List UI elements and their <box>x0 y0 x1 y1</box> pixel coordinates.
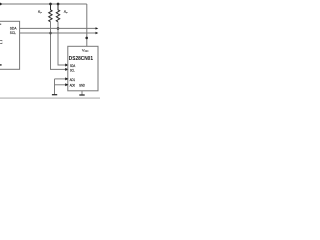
svg-text:AD1: AD1 <box>70 77 76 82</box>
chip U2 DS28CN01 box <box>68 46 98 91</box>
label fragment top-left <box>0 24 1 25</box>
wire AD0 pin <box>55 84 66 86</box>
label fragment bottom-left <box>0 64 2 66</box>
node R1-SCL bus junction <box>49 32 52 35</box>
svg-text:DS28CN01: DS28CN01 <box>69 56 93 62</box>
wire VCC top rail <box>0 3 87 5</box>
wire R2 vertical down to SDA pin bend <box>58 22 66 65</box>
wire SCL bus <box>20 32 96 34</box>
svg-text:C: C <box>0 40 3 46</box>
svg-text:RP: RP <box>38 10 42 15</box>
microcontroller U1 box <box>0 21 20 69</box>
wire VCC drop to U2 <box>86 4 88 46</box>
arrow into U2 AD0 pin <box>65 83 68 86</box>
wire R1 vertical down to SCL pin bend <box>51 22 66 70</box>
svg-text:RP: RP <box>64 10 68 15</box>
wire GND pin vertical <box>81 91 83 95</box>
ground bar AD tie <box>52 94 57 96</box>
svg-text:SCL: SCL <box>70 68 75 73</box>
arrow SCL bus right end <box>96 32 99 34</box>
svg-text:AD0: AD0 <box>70 83 76 88</box>
arrow into U2 SDA pin <box>65 64 68 67</box>
arrow into U2 AD1 pin <box>65 77 68 80</box>
node R2-SDA bus junction <box>57 27 60 30</box>
node on VCC drop <box>85 37 88 40</box>
node rail left end <box>0 3 2 6</box>
wire AD1 pin <box>55 78 66 80</box>
ground bar GND pin <box>79 94 84 96</box>
svg-text:SCL: SCL <box>10 30 17 35</box>
svg-text:VCC: VCC <box>82 47 89 53</box>
svg-text:GND: GND <box>79 83 85 88</box>
resistor R2 (SDA pull-up) zigzag <box>56 4 59 22</box>
arrow SDA bus right end <box>96 27 99 29</box>
wire AD tie vertical <box>54 79 56 95</box>
arrow into U2 SCL pin <box>65 68 68 71</box>
wire GND bottom rail <box>0 97 100 99</box>
node rail-R1 junction <box>49 3 52 6</box>
node rail-R2 junction <box>57 3 60 6</box>
wire SDA bus <box>20 27 96 29</box>
resistor R1 (SCL pull-up) zigzag <box>49 4 52 22</box>
